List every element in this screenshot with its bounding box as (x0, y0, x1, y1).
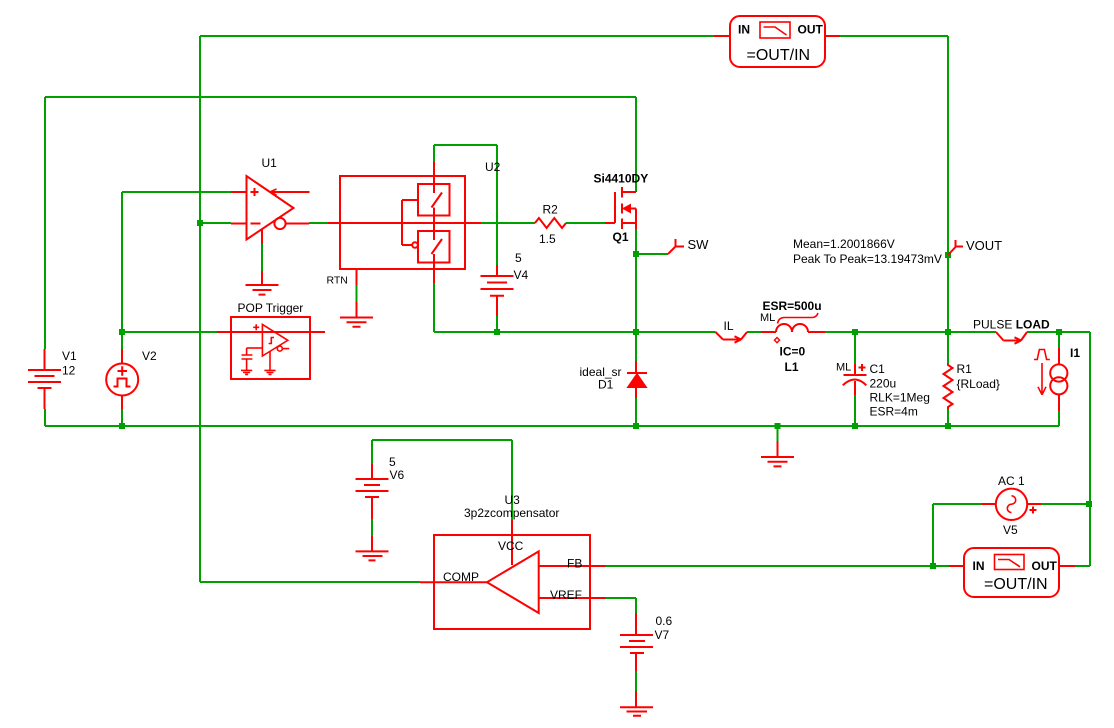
node D1 bottom junction (633, 423, 639, 429)
wire right-edge vertical x=1090 (1089, 332, 1091, 566)
node I1 top junction (1056, 329, 1062, 335)
wire probe2 OUT stub (1075, 565, 1090, 567)
wire V4 top vertical (496, 145, 498, 265)
svg-text:0.6: 0.6 (656, 614, 673, 628)
svg-text:RLK=1Meg: RLK=1Meg (870, 391, 930, 405)
battery V1 (28, 349, 61, 409)
wire C1 bottom (854, 395, 856, 426)
wire V7 bottom (635, 671, 637, 691)
svg-text:VOUT: VOUT (966, 238, 1002, 253)
svg-text:V6: V6 (390, 468, 405, 482)
svg-text:V2: V2 (142, 349, 157, 363)
ground (V7) (620, 691, 653, 716)
wire C1 top (854, 332, 856, 364)
svg-text:POP Trigger: POP Trigger (238, 301, 304, 315)
wire V6 top vertical (371, 440, 373, 464)
svg-text:V1: V1 (62, 349, 77, 363)
wire VREF horizontal (605, 597, 636, 599)
node R1 top junction (945, 329, 951, 335)
wire I1 top (1058, 332, 1060, 348)
svg-text:U1: U1 (262, 156, 278, 170)
wire FB net (605, 565, 949, 567)
node V4 bottom junction (494, 329, 500, 335)
wire Q1 source down to SW and D1 (635, 229, 637, 332)
svg-text:ESR=4m: ESR=4m (870, 405, 918, 419)
svg-text:5: 5 (515, 251, 522, 265)
wire I1 bottom (1058, 411, 1060, 426)
svg-text:IC=0: IC=0 (780, 345, 806, 359)
probe block top =OUT/IN (714, 16, 840, 67)
node SW junction (633, 251, 639, 257)
svg-text:C1: C1 (870, 362, 886, 376)
wire U2 bottom vertical (433, 283, 435, 332)
node V2 top junction (119, 329, 125, 335)
wire bus segment D (1027, 331, 1090, 333)
source V5 AC 1 (981, 489, 1041, 520)
ground (RTN) (340, 318, 373, 327)
svg-text:SW: SW (688, 237, 710, 252)
node V2 bottom junction (119, 423, 125, 429)
svg-text:3p2zcompensator: 3p2zcompensator (464, 506, 559, 520)
svg-text:IN: IN (973, 559, 985, 573)
capacitor C1 (843, 364, 867, 395)
current probe PULSE LOAD (996, 332, 1027, 344)
svg-text:12: 12 (62, 364, 76, 378)
wire top horizontal right of IN/OUT probe (840, 35, 948, 37)
svg-text:220u: 220u (870, 377, 897, 391)
svg-text:AC 1: AC 1 (998, 474, 1025, 488)
ground (U1) (246, 271, 279, 295)
node U1 minus junction (197, 220, 203, 226)
wire V4 bottom vertical (496, 316, 498, 332)
svg-text:L1: L1 (785, 360, 799, 374)
wire U1 output to U2 (309, 222, 328, 224)
wire V2 bottom (121, 409, 123, 426)
wire right vertical down to VOUT node (947, 36, 949, 332)
wire VCC vertical (511, 440, 513, 520)
wire VCC horizontal (372, 439, 512, 441)
compensator block U3 (420, 520, 606, 629)
inductor L1 (761, 313, 825, 343)
wire D1 top (635, 332, 637, 361)
wire COMP net (200, 581, 420, 583)
svg-text:{RLoad}: {RLoad} (957, 377, 1000, 391)
svg-text:Si4410DY: Si4410DY (594, 172, 649, 186)
svg-text:U2: U2 (485, 160, 501, 174)
wire AC source right (1041, 503, 1090, 505)
wire V6 bottom (371, 519, 373, 536)
wire bus segment C (825, 331, 996, 333)
wire RTN ground link (356, 285, 358, 302)
wire R1 top (947, 332, 949, 364)
svg-text:ML: ML (836, 362, 851, 374)
wire U1 + input (122, 191, 231, 193)
wire VREF vertical to V7 (635, 598, 637, 613)
node R1 bottom junction (945, 423, 951, 429)
wire R1 bottom (947, 409, 949, 426)
svg-text:ESR=500u: ESR=500u (763, 299, 822, 313)
svg-text:IN: IN (738, 23, 750, 37)
MOSFET Q1 (605, 187, 636, 229)
wire Q1 drain vertical (635, 97, 637, 191)
svg-text:Peak To Peak=13.19473mV: Peak To Peak=13.19473mV (793, 252, 942, 266)
switch block U2 (328, 162, 481, 283)
svg-text:V7: V7 (655, 628, 670, 642)
wire U2 top vertical (433, 145, 435, 162)
wire D1 bottom (635, 398, 637, 426)
wire bus segment B (747, 331, 761, 333)
svg-text:V4: V4 (514, 268, 529, 282)
node AC right junction (1086, 501, 1092, 507)
svg-text:OUT: OUT (1032, 559, 1058, 573)
wire SW stub (636, 253, 668, 255)
ground (main) (761, 441, 794, 466)
svg-text:ML: ML (760, 312, 775, 324)
wire second horizontal rail y=97 (45, 96, 636, 98)
wire AC source left horizontal (933, 503, 981, 505)
wire V1 bottom vertical (44, 409, 46, 426)
node VOUT junction (945, 252, 951, 258)
svg-text:RTN: RTN (327, 275, 348, 287)
svg-text:=OUT/IN: =OUT/IN (984, 576, 1048, 593)
svg-text:V5: V5 (1003, 523, 1018, 537)
op-amp U1 (231, 176, 310, 244)
svg-text:1.5: 1.5 (539, 232, 556, 246)
svg-text:COMP: COMP (443, 570, 479, 584)
wire x=122 vertical to V2 (121, 192, 123, 349)
wire U1 - input (200, 222, 231, 224)
node marker VOUT (948, 240, 963, 255)
battery V6 (356, 464, 389, 519)
ground (V6) (356, 536, 389, 560)
current probe IL (716, 332, 748, 343)
svg-text:D1: D1 (598, 378, 614, 392)
wire bottom ground bus (45, 425, 1059, 427)
node D1 top junction (633, 329, 639, 335)
RTN pin of U2 (356, 269, 358, 318)
svg-text:U3: U3 (505, 493, 521, 507)
wire R2 left (481, 222, 535, 224)
svg-text:Q1: Q1 (613, 230, 629, 244)
battery V4 (481, 265, 514, 316)
current source I1 (1034, 348, 1067, 411)
wire SW node bus segment A (434, 331, 716, 333)
wire U2 top horizontal (434, 144, 497, 146)
resistor R1 (944, 364, 953, 409)
wire main ground link (777, 426, 779, 441)
node C1 top junction (852, 329, 858, 335)
wire AC source left vertical (932, 504, 934, 566)
wire POP trigger input (122, 331, 217, 333)
diode D1 ideal_sr (627, 361, 647, 398)
wire top horizontal left of IN/OUT probe (200, 35, 714, 37)
svg-text:R2: R2 (543, 203, 559, 217)
svg-text:VCC: VCC (498, 539, 524, 553)
wire left vertical x=200 (199, 36, 201, 582)
svg-text:PULSE LOAD: PULSE LOAD (973, 318, 1050, 332)
svg-text:VREF: VREF (550, 588, 582, 602)
svg-text:IL: IL (724, 319, 734, 333)
resistor R2 (535, 218, 566, 228)
wire U1 ground link (261, 244, 263, 271)
probe block bottom =OUT/IN (949, 548, 1075, 597)
svg-text:5: 5 (389, 455, 396, 469)
node marker SW (668, 239, 684, 254)
svg-text:FB: FB (567, 557, 582, 571)
POP Trigger block (217, 317, 325, 379)
battery V7 (620, 613, 653, 671)
svg-text:I1: I1 (1070, 346, 1080, 360)
node C1 bottom junction (852, 423, 858, 429)
node probe2 IN junction (930, 563, 936, 569)
svg-text:OUT: OUT (798, 23, 824, 37)
svg-text:R1: R1 (957, 362, 973, 376)
svg-text:=OUT/IN: =OUT/IN (747, 47, 811, 64)
wire R2 right to gate (566, 222, 605, 224)
node ground bus junction (775, 423, 781, 429)
svg-text:Mean=1.2001866V: Mean=1.2001866V (793, 237, 895, 251)
wire V1 top vertical (44, 97, 46, 349)
source V2 (pulse voltage source) (106, 349, 138, 409)
